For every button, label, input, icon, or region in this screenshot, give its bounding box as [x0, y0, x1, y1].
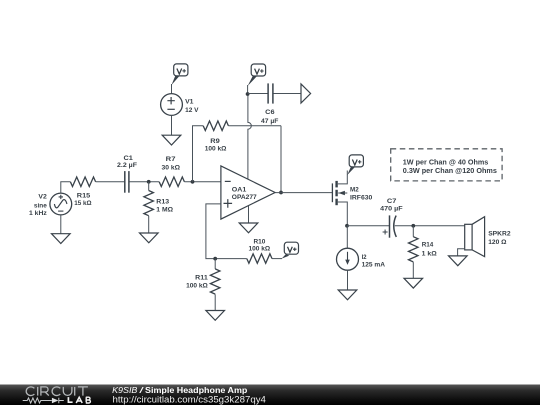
wire R14 to ground [412, 262, 414, 278]
capacitor C1 [125, 171, 129, 193]
output port flag (right-pointing terminal) [301, 84, 311, 103]
svg-text:100 kΩ: 100 kΩ [205, 146, 227, 153]
svg-text:1 MΩ: 1 MΩ [156, 206, 173, 213]
svg-text:sine: sine [34, 203, 47, 210]
svg-text:0.3W per Chan @120 Ohms: 0.3W per Chan @120 Ohms [403, 168, 497, 175]
wire I2 to ground [347, 270, 349, 290]
resistor R13 [144, 191, 154, 216]
svg-text:R15: R15 [77, 193, 91, 200]
capacitor C6 [268, 83, 273, 103]
wire node A down to R13 [148, 182, 150, 191]
wire V2 top to R15 [61, 182, 71, 193]
label SPKR2 value [488, 230, 511, 246]
wire R9 to feedback corner [228, 125, 281, 127]
svg-text:V2: V2 [38, 193, 47, 200]
wire R11 to ground [214, 294, 216, 310]
ground (below R11) [206, 311, 225, 321]
svg-text:100 kΩ: 100 kΩ [186, 283, 208, 290]
node D junction (divider node) [213, 257, 217, 261]
svg-text:http://circuitlab.com/cs35g3k2: http://circuitlab.com/cs35g3k287qy4 [113, 395, 266, 405]
FOOTER BAR [0, 385, 540, 405]
svg-text:30 kΩ: 30 kΩ [162, 165, 181, 172]
svg-text:100 kΩ: 100 kΩ [248, 246, 270, 253]
svg-text:120 Ω: 120 Ω [488, 239, 507, 246]
svg-text:M2: M2 [350, 187, 359, 194]
ground (below V1) [162, 135, 181, 145]
svg-text:OPA277: OPA277 [232, 194, 257, 201]
wire speaker second terminal to ground [458, 249, 465, 256]
op-amp OA1 V+ pin wire (hops over R9 wire) [248, 94, 251, 179]
resistor R7 [159, 177, 184, 187]
wire feedback down to output node [280, 126, 282, 193]
svg-text:R9: R9 [210, 138, 220, 145]
label C1 value [117, 155, 137, 169]
label R10 value [248, 239, 270, 253]
wire node D down to R11 [214, 259, 216, 269]
label V1 value [185, 98, 199, 114]
wire V2 bottom to ground [60, 215, 62, 234]
svg-text:15 kΩ: 15 kΩ [74, 200, 92, 207]
ground (below V2) [52, 234, 71, 244]
current source I2 (125 mA) [337, 248, 359, 270]
ground (below I2) [338, 290, 357, 300]
wire R15 to C1 [96, 181, 125, 183]
annotation text [403, 159, 497, 175]
wire R13 to ground [148, 216, 150, 233]
wire R10 to V+ flag [272, 258, 282, 260]
V+ flag (above V1) [172, 64, 188, 85]
node B junction [191, 180, 195, 184]
label R15 value [74, 193, 92, 208]
ground (below R14) [404, 278, 423, 288]
svg-text:R7: R7 [166, 156, 176, 163]
footer title text [112, 385, 247, 395]
label R9 value [205, 138, 227, 153]
svg-text:R13: R13 [156, 198, 169, 205]
label V2 value [29, 193, 47, 217]
op-amp OA1 OPA277 [221, 166, 275, 219]
svg-text:C7: C7 [387, 198, 397, 205]
svg-text:470 µF: 470 µF [380, 205, 402, 212]
V+ flag (op-amp supply node) [248, 64, 266, 94]
label C6 value [261, 109, 278, 125]
V+ flag (right of R10) [282, 242, 299, 258]
resistor R11 [210, 269, 220, 294]
resistor R14 [409, 237, 419, 262]
svg-text:2.2 µF: 2.2 µF [117, 162, 137, 169]
wire node B up to R9 [193, 126, 204, 182]
svg-text:1 kHz: 1 kHz [29, 210, 47, 217]
label R7 value [162, 156, 181, 172]
ground (below speaker) [449, 256, 468, 266]
label I2 value [362, 254, 385, 269]
wire R7 to node B [184, 181, 221, 183]
output node junction [279, 191, 283, 195]
speaker SPKR2 [465, 217, 485, 257]
CircuitLab logo text LAB (stroked) [68, 397, 90, 403]
transistor M2 IRF630 (NMOS) [332, 171, 372, 226]
node E junction (M2 source / I2 / C7) [345, 224, 349, 228]
svg-text:K9SIB: K9SIB [112, 385, 138, 395]
wire V+ flag to V1 [171, 84, 173, 93]
wire node C to C6 [248, 93, 268, 95]
svg-text:Simple Headphone Amp: Simple Headphone Amp [145, 385, 247, 395]
svg-text:R14: R14 [422, 242, 434, 249]
ground (below R13) [140, 233, 159, 243]
node F junction (C7 / R14 / speaker) [411, 224, 415, 228]
svg-text:125 mA: 125 mA [362, 261, 385, 268]
label C7 value [380, 198, 402, 213]
svg-text:OA1: OA1 [232, 187, 247, 194]
svg-text:12 V: 12 V [185, 107, 199, 114]
svg-text:C1: C1 [124, 155, 134, 162]
op-amp OA1 V- pin wire [248, 206, 250, 223]
wire C7 to node F [395, 225, 465, 227]
svg-text:I2: I2 [362, 254, 367, 261]
capacitor C7 (polarized, 470 uF) [390, 215, 397, 237]
label R11 value [186, 274, 208, 289]
svg-text:47 µF: 47 µF [261, 118, 278, 125]
wire C1 to node A [129, 181, 159, 183]
wire op-amp + input from divider [206, 204, 247, 259]
wire output node to M2 gate [275, 192, 332, 194]
svg-text:IRF630: IRF630 [350, 195, 373, 202]
resistor R15 [70, 177, 95, 187]
svg-text:R11: R11 [195, 274, 208, 281]
svg-text:1W per Chan @ 40 Ohms: 1W per Chan @ 40 Ohms [403, 159, 489, 166]
label R14 value [422, 242, 438, 258]
voltage source V1 (12 V) [161, 94, 183, 116]
svg-text:V1: V1 [185, 98, 194, 105]
ground (below op-amp) [239, 223, 258, 233]
svg-text:1 kΩ: 1 kΩ [422, 251, 438, 258]
wire node F down to R14 [412, 226, 414, 237]
CircuitLab logo resistor zigzag and diode [23, 398, 64, 404]
resistor R10 [247, 254, 272, 264]
svg-text:SPKR2: SPKR2 [488, 230, 511, 237]
voltage source V2 (sine 1 kHz) [50, 193, 72, 215]
resistor R9 [203, 121, 228, 131]
annotation dashed box [391, 149, 502, 181]
node A junction [147, 180, 151, 184]
svg-text:C6: C6 [265, 109, 275, 116]
wire node E to C7 [347, 225, 390, 227]
node C junction (V+ / C6 / op-amp supply) [246, 92, 250, 96]
CircuitLab logo text CIRCUIT (stroked letters) [26, 387, 88, 396]
wire V1 to ground [171, 115, 173, 135]
wire C6 to output port [273, 93, 301, 95]
wire node E to I2 [346, 226, 348, 249]
label R13 value [156, 198, 173, 213]
V+ flag (above M2 drain) [347, 155, 363, 175]
